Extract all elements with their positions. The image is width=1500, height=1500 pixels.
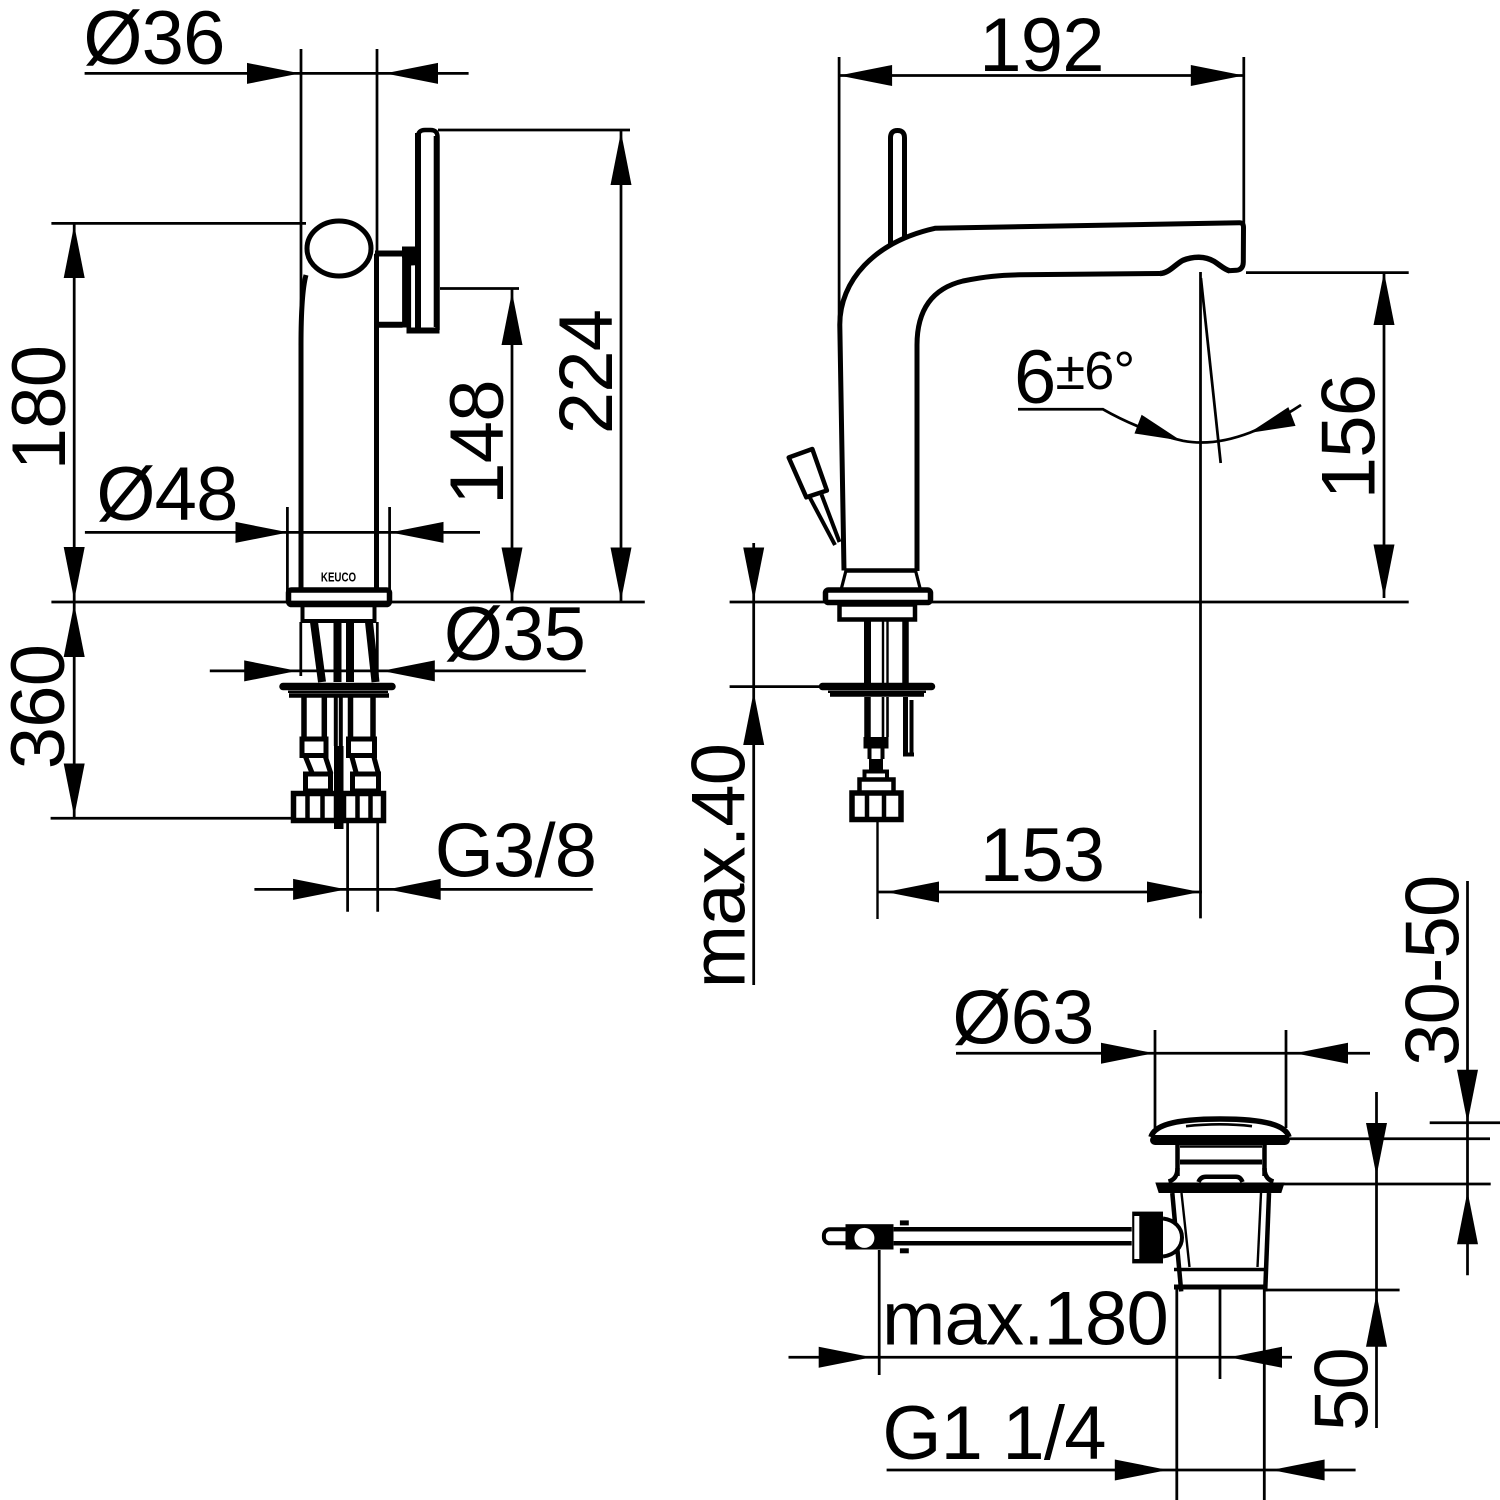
svg-text:148: 148: [435, 380, 520, 504]
svg-text:156: 156: [1307, 375, 1392, 499]
svg-text:Ø36: Ø36: [83, 0, 224, 81]
svg-text:224: 224: [544, 310, 629, 434]
svg-text:Ø35: Ø35: [444, 592, 585, 677]
svg-text:30-50: 30-50: [1391, 876, 1476, 1066]
svg-text:180: 180: [0, 346, 82, 470]
svg-text:Ø48: Ø48: [96, 452, 237, 537]
svg-text:G1 1/4: G1 1/4: [882, 1391, 1105, 1476]
svg-text:360: 360: [0, 645, 81, 769]
svg-text:50: 50: [1300, 1348, 1385, 1431]
svg-text:Ø63: Ø63: [952, 976, 1093, 1061]
svg-text:153: 153: [980, 813, 1104, 898]
svg-text:KEUCO: KEUCO: [321, 571, 356, 584]
svg-text:G3/8: G3/8: [435, 809, 597, 894]
svg-text:max.40: max.40: [677, 744, 762, 988]
svg-text:max.180: max.180: [882, 1277, 1168, 1362]
svg-text:192: 192: [979, 3, 1103, 88]
